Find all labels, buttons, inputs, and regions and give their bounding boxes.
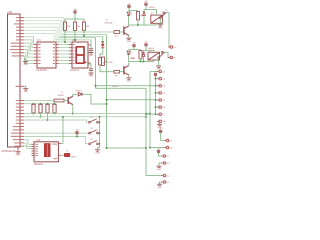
junction S3 column xyxy=(99,143,101,145)
relay K1 contact xyxy=(159,12,166,19)
junction R8 rail xyxy=(140,61,142,63)
junction resistor row xyxy=(54,113,56,115)
resistor R4 xyxy=(99,58,102,66)
wire IC1 to display segment xyxy=(59,44,69,46)
IC1 BCD decoder body xyxy=(37,42,56,68)
wire row to switch S3 xyxy=(24,136,88,143)
wire U$1 to IC2 pin 1 xyxy=(24,140,32,144)
svg-text:GND: GND xyxy=(127,41,132,43)
wire U$1 pin 1 run xyxy=(24,18,64,33)
junction R3-bus xyxy=(83,35,85,37)
junction S2 column xyxy=(99,132,101,134)
wire bottom loop horizontal xyxy=(107,147,147,149)
wire IC1 to display segment xyxy=(59,53,69,55)
wire contact to ground xyxy=(158,59,160,67)
junction X2 2-3 xyxy=(155,85,157,87)
svg-text:4K7: 4K7 xyxy=(115,76,118,78)
wire X3-4 to ground xyxy=(160,182,162,184)
wire U$1 to IC2 pin 2 xyxy=(24,143,32,146)
wire X2-1 feed from V4 xyxy=(150,71,157,73)
wire U$1 pin 3 run xyxy=(24,24,60,37)
resistor row rail xyxy=(24,103,55,105)
wire S2 out xyxy=(98,132,99,134)
relay K1 coil xyxy=(151,15,163,23)
wire R5 to T1 base xyxy=(120,31,124,33)
svg-text:GND: GND xyxy=(24,91,29,93)
wire IC1 to display segment xyxy=(59,50,69,52)
IC2 left pin stubs xyxy=(32,144,35,155)
ground near K1 contact xyxy=(158,25,163,26)
svg-text:+5V: +5V xyxy=(73,9,77,11)
IC2 internal block xyxy=(44,143,51,157)
wire bus net 1 xyxy=(64,31,114,33)
junction V3 feed3 xyxy=(145,113,147,115)
wire IC1 to display segment xyxy=(59,59,69,61)
junction V1 feed1 xyxy=(95,85,97,87)
wire R1 to bus xyxy=(64,30,66,42)
wire K1 contact to pin X1-2 xyxy=(165,13,169,47)
wire to X4-2 xyxy=(150,147,164,149)
wire bus L5 down to C1 xyxy=(90,40,92,48)
junction R1-bus xyxy=(64,41,66,43)
resistor R7 base of T2 xyxy=(114,70,120,73)
wire D3 to R4 xyxy=(100,48,103,58)
resistor R3 pull-up xyxy=(83,22,86,30)
junction V4 X4-2 xyxy=(149,147,151,149)
junction R2-bus xyxy=(74,39,76,41)
svg-text:2N3055: 2N3055 xyxy=(58,95,65,97)
junction V4 H2a xyxy=(149,113,151,115)
wire row to switch S1 xyxy=(24,120,88,122)
wire rail to R9 xyxy=(33,103,35,106)
IC2 body xyxy=(34,142,58,162)
svg-text:GND: GND xyxy=(16,154,21,156)
wire rail to resistor xyxy=(64,19,66,22)
wire IC1 to display segment xyxy=(59,47,69,49)
wire T2 collector up xyxy=(128,62,130,66)
+5V supply near switches xyxy=(76,131,79,134)
ground below switches xyxy=(95,150,100,151)
wire T3 emitter to H2a xyxy=(72,105,74,114)
diode D1 freewheel xyxy=(143,12,146,15)
+5V supply above LED D2s xyxy=(133,44,136,47)
U$1 bottom GND pin stub xyxy=(17,147,19,152)
+5V supply for X2 xyxy=(154,73,157,76)
wire U$1 GND pin xyxy=(24,59,26,61)
svg-text:GND: GND xyxy=(89,55,94,57)
wire +5V to stage2 rail xyxy=(133,47,135,50)
junction T3 emitter H2a xyxy=(72,113,74,115)
wire +5V to K2 rail xyxy=(145,46,147,50)
wire D2 down xyxy=(143,56,145,61)
svg-text:GND: GND xyxy=(89,76,94,78)
svg-text:S1: S1 xyxy=(166,10,168,12)
wire V4 vertical xyxy=(149,72,151,148)
resistor R11 xyxy=(46,104,49,113)
svg-text:GND: GND xyxy=(23,64,28,66)
diode D3 vertical xyxy=(101,41,104,44)
K1 top rail xyxy=(144,9,157,11)
transistor T1 xyxy=(124,26,129,36)
wire H2a from U$1 pin to V4 xyxy=(24,113,150,115)
wire resistor to row line xyxy=(54,112,56,115)
wire T3 collector to D4 xyxy=(73,94,77,96)
transistor T2 xyxy=(124,66,129,76)
resistor R2 pull-up xyxy=(74,22,77,30)
wire U$1 to IC1 pin 6 xyxy=(24,53,34,61)
wire U$1 pin 5 run xyxy=(24,30,56,40)
wire rows to IC2 right pin xyxy=(61,117,63,144)
svg-text:+5V: +5V xyxy=(127,3,131,5)
wire C2 to ground xyxy=(90,70,92,73)
wire U$1 to IC1 pin 5 xyxy=(24,50,34,58)
switch S1 xyxy=(89,119,99,123)
svg-text:2N2222A: 2N2222A xyxy=(105,21,114,24)
wire V1 to X2-3 xyxy=(96,85,158,87)
wire R7 to T2 base xyxy=(120,71,124,73)
ground near K2 contact xyxy=(156,66,161,67)
display digit 8 segments xyxy=(76,47,86,63)
wire U$1 p15 to IC2 xyxy=(24,146,32,149)
display pin name dashes xyxy=(73,44,75,64)
wire +5V to rail xyxy=(74,13,76,19)
junction X2 2-4 xyxy=(155,92,157,94)
svg-text:1N4004: 1N4004 xyxy=(148,48,154,50)
resistor R10 xyxy=(39,104,42,113)
7-segment display body xyxy=(72,42,88,68)
connector pin X1-2 xyxy=(168,46,170,48)
ground below X2-8 xyxy=(157,124,162,125)
+5V supply above pull-ups xyxy=(74,11,77,14)
ground below U$1 xyxy=(15,152,20,153)
wire bus net 6 xyxy=(54,41,88,43)
connector pin X2-5 xyxy=(157,99,159,101)
+5V supply above LED D1 xyxy=(128,5,131,8)
relay K2 coil xyxy=(148,52,160,60)
svg-text:GND: GND xyxy=(157,169,162,171)
wire rail to resistor xyxy=(74,19,76,22)
wire K2 coil to rail xyxy=(153,60,155,62)
wire into D4 xyxy=(76,93,78,95)
junction D2 rail xyxy=(143,61,145,63)
wire bus net 3 xyxy=(60,36,103,38)
svg-text:1N4148: 1N4148 xyxy=(112,86,118,88)
capacitor C1 xyxy=(89,49,93,51)
connector pin X2-4 xyxy=(157,92,159,94)
junction IC2 right feed xyxy=(62,116,64,118)
wire U$1 AGND pin to ground xyxy=(24,86,26,88)
junction resistor row xyxy=(40,116,42,118)
resistor R6 stage1 xyxy=(137,12,140,20)
wire U$1 to IC1 pin 2 xyxy=(24,40,34,48)
junction H2b V3 xyxy=(145,116,147,118)
connector pin X4-2 xyxy=(164,147,166,149)
resistor R12 xyxy=(53,104,56,113)
wire U$1 to IC1 pin 4 xyxy=(24,46,34,54)
junction +5V switch row xyxy=(76,135,78,137)
svg-text:GND: GND xyxy=(95,152,100,154)
wire switch column vertical xyxy=(99,117,101,148)
wire S3 out xyxy=(98,143,99,145)
switch S2 xyxy=(89,130,99,134)
+5V supply for K2 xyxy=(145,44,148,47)
ground below T1 xyxy=(126,38,131,39)
svg-text:74LS247N: 74LS247N xyxy=(36,70,47,72)
wire V2 chain top xyxy=(102,37,104,44)
wire +5V to LED rail xyxy=(128,8,130,11)
ground below X3-2 xyxy=(156,166,161,167)
connector pin X3-1 xyxy=(161,155,163,157)
ground near U$1 xyxy=(23,62,28,63)
IC2 pin names xyxy=(35,144,38,156)
U$1 top pin stubs xyxy=(20,18,24,56)
LED/resistor top rail xyxy=(129,10,139,12)
ground below X3-4 xyxy=(157,184,162,185)
wire R3 to bus xyxy=(83,30,85,36)
wire display to C2 xyxy=(88,64,91,69)
K2 top rail xyxy=(144,49,155,51)
svg-text:S2: S2 xyxy=(91,128,93,130)
svg-text:GND: GND xyxy=(127,81,132,83)
wire contact to ground xyxy=(159,19,161,25)
svg-text:MAX232: MAX232 xyxy=(34,163,44,166)
wire V1 vertical xyxy=(95,38,97,89)
wire rail to K2 coil xyxy=(153,50,155,52)
relay K2 contact xyxy=(158,51,165,58)
wire U$1 pin 2 run xyxy=(24,21,62,35)
pull-up rail wire xyxy=(65,18,84,20)
connector pin X3-3 xyxy=(161,175,163,177)
ground below T2 xyxy=(126,78,131,79)
wire U$1 pin 4 run xyxy=(24,27,58,38)
wire T1 emitter down xyxy=(128,36,130,39)
wire C1 to ground xyxy=(90,50,92,52)
U$1 AGND pin stub xyxy=(20,85,24,87)
IC1 right pin stubs xyxy=(56,45,59,64)
wire X2-8 to ground xyxy=(159,121,161,124)
connector pin X1-1 xyxy=(168,57,170,59)
svg-text:AT90S4414P: AT90S4414P xyxy=(2,150,16,153)
connector pin X3-2 xyxy=(161,162,163,164)
diode D4 horizontal xyxy=(78,93,82,96)
svg-text:1N4004: 1N4004 xyxy=(149,7,155,9)
svg-text:+5V: +5V xyxy=(75,130,79,132)
wire bus net 5 xyxy=(56,39,91,41)
wire V3 to X3-3 xyxy=(146,175,161,177)
connector pin X2-1 xyxy=(157,71,159,73)
U$1 top pin names xyxy=(10,17,20,57)
display left pin stubs xyxy=(69,45,72,64)
wire H2b from U$1 pin to V3 xyxy=(24,116,146,118)
junction X2 2-7 xyxy=(155,113,157,115)
svg-text:+5V: +5V xyxy=(144,42,148,44)
svg-text:GND: GND xyxy=(158,27,163,29)
svg-text:S1: S1 xyxy=(91,117,93,119)
wire rail to R11 xyxy=(47,103,49,106)
junction X2 2-5 xyxy=(155,99,157,101)
wire U$1 to IC1 pin 3 xyxy=(24,43,34,51)
junction resistor row xyxy=(47,119,49,121)
wire R8 to rail xyxy=(140,59,142,62)
wire +5V to X4-1 xyxy=(161,133,165,141)
svg-text:+5V: +5V xyxy=(159,128,163,130)
wire R6 to collector rail xyxy=(137,20,139,26)
wire U$1 to R13 xyxy=(24,100,54,102)
resistor R5 base of T1 xyxy=(114,31,120,34)
wire X3-2 to ground xyxy=(159,163,161,166)
LED LED1 xyxy=(64,153,70,157)
wire to X2-5 xyxy=(156,99,158,101)
wire T2 emitter down xyxy=(128,75,130,78)
wire resistor to row line xyxy=(33,112,35,115)
resistor R13 base of T3 xyxy=(54,99,64,102)
wire D1 to bottom rail xyxy=(143,16,145,26)
wire LED2 to collector rail xyxy=(128,16,130,25)
connector pin X2-8 xyxy=(157,120,159,122)
IC1 pin names xyxy=(38,44,55,64)
switch S3 xyxy=(89,140,99,144)
wire rail to resistor xyxy=(83,19,85,22)
connector pin X2-6 xyxy=(157,106,159,108)
resistor R8 stage2 xyxy=(139,51,142,59)
junction X2 2-6 xyxy=(155,106,157,108)
connector pin X2-2 xyxy=(157,78,159,80)
junction V2 feed2 xyxy=(106,99,108,101)
junction rail R12 xyxy=(54,103,56,105)
wire bus net 2 xyxy=(62,34,107,36)
capacitor C2 xyxy=(89,69,93,71)
wire V2 to X2-5 xyxy=(107,99,158,101)
wire S1 out xyxy=(98,121,99,123)
wire H1 horizontal xyxy=(96,87,147,89)
connector pin X3-4 xyxy=(161,181,163,183)
IC1 left pin stubs xyxy=(34,45,37,64)
svg-text:+5V: +5V xyxy=(144,1,148,3)
U$1 bottom pin names xyxy=(11,100,20,147)
+5V supply for X3 xyxy=(157,150,160,153)
svg-text:T3: T3 xyxy=(61,92,63,94)
wire LED3 to rail xyxy=(128,55,130,62)
junction S1 column xyxy=(99,121,101,123)
resistor R1 pull-up xyxy=(64,22,67,30)
ground below C2 xyxy=(88,73,93,74)
wire to X2-7 xyxy=(156,113,158,115)
wire V3 to X2-7 xyxy=(146,113,157,115)
wire R2 to bus xyxy=(74,30,76,40)
wire V2 vertical xyxy=(106,35,108,148)
wire K2 contact to pin X1-1 xyxy=(163,52,170,57)
junction resistor row xyxy=(33,113,35,115)
display right pin stubs xyxy=(88,45,91,63)
svg-text:GND: GND xyxy=(157,187,162,188)
wire U$1 to IC1 pin 1 xyxy=(24,37,34,45)
svg-text:2N2222A: 2N2222A xyxy=(105,61,114,64)
wire U$1 to IC1 pin 7 xyxy=(24,56,34,64)
wire switch column to ground xyxy=(98,148,100,150)
wire T1 collector up xyxy=(128,24,130,27)
svg-text:C9: C9 xyxy=(66,151,68,153)
wire to X2-6 xyxy=(156,106,158,108)
stage2 LED/resistor top rail xyxy=(129,49,141,51)
wire row to switch S2 xyxy=(24,132,88,134)
junction rail R11 xyxy=(47,103,49,105)
wire resistor to row line xyxy=(40,113,42,117)
wire U$1 pin 6 run xyxy=(24,34,54,43)
resistor R4 on V2 xyxy=(102,57,105,65)
svg-text:4K7: 4K7 xyxy=(115,36,118,38)
svg-text:S3: S3 xyxy=(91,139,93,141)
connector pin X4-1 xyxy=(164,140,166,142)
wire to X2-2 xyxy=(156,78,158,80)
wire IC1 to display segment xyxy=(59,63,69,65)
wire rail to D2 xyxy=(143,50,145,52)
connector pin X2-7 xyxy=(157,113,159,115)
wire +5V stub xyxy=(76,134,78,136)
junction rail R10 xyxy=(40,103,42,105)
wire rail to R12 xyxy=(54,103,56,106)
wire bus net 4 xyxy=(58,37,96,39)
svg-text:SA04-11: SA04-11 xyxy=(70,69,79,72)
wire R4 to T2 base resistor xyxy=(100,65,114,72)
LED LED2 xyxy=(127,12,130,15)
+5V supply for X4-1 xyxy=(159,130,162,133)
wire to X2-4 xyxy=(156,92,158,94)
junction switch column H2b xyxy=(99,116,101,118)
junction D4 V2 xyxy=(106,103,108,105)
collector rail of T1 xyxy=(129,24,157,26)
wire D4 to V2 xyxy=(82,94,107,104)
wire V3 vertical xyxy=(145,88,147,175)
svg-text:1N4004: 1N4004 xyxy=(76,90,82,92)
IC U$1 microcontroller body xyxy=(8,14,21,147)
junction V2 bottom xyxy=(106,147,108,149)
ground mid U$1 xyxy=(23,89,28,90)
resistor R9 xyxy=(32,104,35,113)
svg-text:LED1: LED1 xyxy=(71,156,77,158)
svg-text:+5V: +5V xyxy=(132,43,136,45)
wire +5V to X3-1 xyxy=(159,153,162,156)
wire IC2 to LED1 xyxy=(61,154,64,156)
wire +5V to K1 rail xyxy=(145,6,147,10)
LED LED3 xyxy=(127,51,130,54)
wire to X2-3 xyxy=(156,85,158,87)
U$1 bottom pin stubs xyxy=(20,101,24,147)
wire resistor to row line xyxy=(47,113,49,120)
wire X2 supply vertical xyxy=(155,76,157,114)
wire rail to D1 xyxy=(143,10,145,12)
junction X2 2-2 xyxy=(155,78,157,80)
diode D3 xyxy=(101,44,104,48)
diode D2 freewheel xyxy=(142,53,145,56)
wire rail to K1 coil xyxy=(156,10,158,16)
+5V supply for K1 xyxy=(145,3,148,6)
wire rail to R10 xyxy=(40,103,42,106)
wire R13 to T3 base xyxy=(64,100,68,102)
wire K1 coil to collector rail xyxy=(156,23,158,25)
svg-text:T1: T1 xyxy=(106,20,108,22)
transistor T3 xyxy=(68,96,73,104)
junction rail R9 xyxy=(33,103,35,105)
ground below C1 xyxy=(88,53,93,54)
junction R6 rail xyxy=(137,24,139,26)
connector pin X2-3 xyxy=(157,85,159,87)
junction V3 bottom xyxy=(145,147,147,149)
collector rail of T2 xyxy=(129,61,154,63)
svg-text:+5V: +5V xyxy=(157,148,161,150)
wire IC1 to display segment xyxy=(59,56,69,58)
